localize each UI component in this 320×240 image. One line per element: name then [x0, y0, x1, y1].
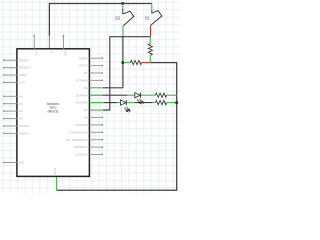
svg-text:A3: A3	[19, 117, 23, 121]
switch S1 bottom pin (red end)	[150, 25, 152, 37]
svg-text:D9 PWM: D9 PWM	[76, 123, 89, 127]
svg-text:A0: A0	[19, 94, 23, 98]
pin D9 PWM	[89, 124, 103, 126]
svg-text:D7: D7	[84, 108, 88, 112]
wire from S1 node across to left then down to D7	[103, 37, 151, 110]
svg-text:GND: GND	[53, 167, 57, 175]
wire LED1 cathode to R4 (green)	[141, 94, 155, 96]
left pin labels	[19, 58, 31, 164]
pin D13/SCK	[89, 154, 103, 156]
pin D6 PWM (green, connected)	[89, 102, 103, 104]
resistor R4 right lead (green) to GND rail	[166, 94, 176, 96]
pin A2	[4, 110, 17, 112]
svg-text:S2: S2	[115, 16, 121, 21]
svg-text:A1: A1	[19, 102, 23, 106]
svg-text:RESET: RESET	[19, 58, 29, 62]
wire from S2 down to D4 level	[122, 36, 124, 88]
svg-text:A2: A2	[19, 109, 23, 113]
svg-text:VIN: VIN	[64, 51, 68, 56]
pin A5/SCL	[4, 132, 17, 134]
resistor R2 top lead (green)	[149, 37, 151, 44]
resistor R5 right lead (green) to GND rail	[166, 102, 176, 104]
resistor R5 left lead (green)	[153, 102, 156, 104]
switch S1 body	[151, 11, 162, 26]
label Arduino Uno (Rev3)	[47, 102, 60, 114]
Arduino Uno (Rev3) board body	[17, 49, 90, 177]
pin AREF	[4, 74, 17, 76]
resistor R3 left lead (green) from junction dot	[123, 62, 130, 64]
LED D2 anode lead (green)	[117, 102, 121, 104]
pin VIN (top)	[63, 35, 65, 48]
pin D0/RX	[89, 57, 103, 59]
switch S2 body	[123, 11, 134, 26]
top pin labels (rotated)	[35, 51, 68, 57]
LED D2 cathode bar	[125, 100, 127, 105]
wire GND net from R2/R3 node to right rail, down and along bottom to GND pin	[57, 63, 177, 191]
svg-text:A4/SDA: A4/SDA	[19, 124, 30, 128]
pin D7 (green, connected)	[89, 109, 103, 111]
LED D1 anode lead (green)	[127, 94, 134, 96]
wire GND pin stub (green)	[56, 176, 58, 190]
LED D2 arrows	[124, 107, 130, 112]
pin A3	[4, 118, 17, 120]
svg-text:D5 PWM: D5 PWM	[76, 93, 89, 97]
wire green 5V pin stub	[48, 35, 50, 48]
node junction dot S2/R3 at y=62.6	[121, 61, 124, 64]
switch S2 top pin	[122, 4, 124, 9]
switch S2 bottom pin (green, connected)	[122, 26, 124, 37]
svg-text:D6 PWM: D6 PWM	[76, 101, 89, 105]
resistor R5 body	[155, 101, 166, 105]
wire 5V rail from 5V pin up and across top	[49, 4, 151, 36]
pin D3 PWM	[89, 79, 103, 81]
svg-text:D3 PWM: D3 PWM	[76, 79, 89, 83]
pin N/C	[4, 162, 17, 164]
pin D10 PWM/SS	[89, 131, 103, 133]
pin D5 PWM (green, connected)	[89, 94, 103, 96]
svg-text:AREF: AREF	[19, 73, 27, 77]
svg-text:N/C: N/C	[19, 161, 25, 165]
resistor R2 body (vertical zigzag under S1)	[148, 44, 152, 56]
svg-text:RESET2: RESET2	[19, 66, 31, 70]
svg-text:D11 PWM/MOSI: D11 PWM/MOSI	[66, 138, 88, 142]
svg-text:D2: D2	[84, 71, 88, 75]
svg-text:D8: D8	[84, 116, 88, 120]
svg-text:ioref: ioref	[19, 81, 25, 85]
pin D11 PWM/MOSI	[89, 139, 103, 141]
wire D5 net: pin stub green then wire to LED1	[89, 94, 103, 96]
LED D2 cathode lead (green)	[127, 102, 135, 104]
pin D2	[89, 72, 103, 74]
pin D8	[89, 116, 103, 118]
svg-text:A5/SCL: A5/SCL	[19, 132, 30, 136]
resistor R2 bottom lead (green)	[149, 55, 151, 62]
wire D6 net: pin stub green then wire to LED2	[89, 102, 103, 104]
LED D1 triangle	[135, 93, 140, 98]
pin RESET	[4, 59, 17, 61]
pin A4/SDA	[4, 125, 17, 127]
LED D2 triangle	[121, 100, 126, 105]
pin D1/TX	[89, 65, 103, 67]
LED D1 cathode bar	[140, 93, 142, 98]
right pin labels	[66, 56, 89, 156]
svg-text:D10 PWM/SS: D10 PWM/SS	[69, 130, 88, 134]
svg-text:D13/SCK: D13/SCK	[75, 153, 88, 157]
svg-text:(Rev3): (Rev3)	[47, 109, 58, 113]
resistor R3 right lead (red)	[141, 62, 150, 64]
node junction dot R5/rail	[175, 101, 178, 104]
svg-text:D1/TX: D1/TX	[79, 64, 88, 68]
pin A0	[4, 95, 17, 97]
svg-text:D4: D4	[84, 86, 88, 90]
node junction dot on 5V rail feeding S2	[121, 2, 124, 5]
pin D12/MISO	[89, 146, 103, 148]
LED D1 arrows	[137, 99, 143, 104]
switch S1 top pin	[151, 4, 153, 11]
wire horizontal into Arduino D4	[103, 87, 123, 89]
pin 3V3 (top)	[33, 35, 35, 48]
resistor R4 body	[155, 93, 166, 97]
svg-text:3V3: 3V3	[35, 51, 39, 57]
svg-text:D12/MISO: D12/MISO	[74, 145, 89, 149]
svg-text:S1: S1	[145, 16, 151, 21]
wire LED2 to R5	[135, 102, 153, 104]
svg-text:D0/RX: D0/RX	[79, 56, 88, 60]
pin ioref	[4, 81, 17, 83]
resistor R3 body (horizontal zigzag)	[130, 61, 141, 65]
pin D4 (green, connected)	[89, 87, 103, 89]
pin RESET2	[4, 67, 17, 69]
pin A1	[4, 103, 17, 105]
svg-text:5V: 5V	[50, 51, 54, 55]
